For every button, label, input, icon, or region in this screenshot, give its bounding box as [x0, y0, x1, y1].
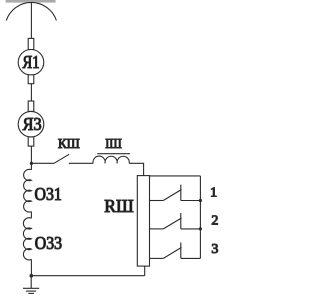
node: shunt branch junction	[30, 162, 33, 165]
svg-text:О33: О33	[35, 233, 63, 253]
inductive shunt ІШ core	[97, 153, 130, 155]
svg-text:Я1: Я1	[23, 52, 40, 72]
wire: inductor to resistor top	[129, 163, 143, 175]
svg-text:О31: О31	[35, 184, 62, 204]
resistor RШ body	[137, 176, 149, 267]
contact 1 left lead	[150, 200, 164, 202]
contact 1 right lead	[181, 200, 201, 202]
wire: right bus	[199, 176, 201, 259]
wire: bar to brush box of Я1	[30, 2, 32, 38]
wire: junction to switch КШ	[31, 162, 54, 164]
wire: top rail to right bus	[150, 175, 201, 177]
svg-text:1: 1	[210, 186, 217, 201]
ground stem	[30, 276, 32, 289]
field winding О33	[23, 218, 31, 260]
ground bar 3	[28, 292, 34, 294]
field winding О31	[24, 169, 32, 212]
brush box above Я1	[28, 38, 34, 49]
brush box below Я1	[28, 75, 34, 84]
wire: resistor bottom stub	[144, 266, 146, 276]
brush box below Я3	[28, 137, 34, 146]
switch КШ blade	[54, 154, 69, 163]
svg-text:3: 3	[211, 242, 218, 257]
wire: bottom return to resistor	[31, 275, 144, 277]
contact 2 left lead	[150, 228, 164, 230]
node contact 1	[199, 199, 202, 202]
contact 3 blade	[163, 247, 181, 258]
inductive shunt ІШ winding	[93, 156, 129, 163]
contact 3 right lead	[181, 257, 201, 259]
wire: between windings	[30, 212, 32, 219]
svg-text:ІШ: ІШ	[105, 137, 122, 152]
contact 3 left lead	[150, 257, 164, 259]
svg-text:RШ: RШ	[104, 196, 134, 216]
svg-text:Я3: Я3	[23, 114, 42, 134]
contact 2 right lead	[181, 228, 201, 230]
node: ground junction	[30, 274, 34, 278]
motor armature Я1	[18, 50, 44, 76]
svg-text:КШ: КШ	[58, 137, 80, 152]
contact 3 fixed stub	[180, 243, 182, 259]
contact 2 blade	[163, 218, 181, 229]
overhead contact line bar	[6, 0, 56, 3]
contact 1 fixed stub	[180, 185, 182, 201]
contact 2 fixed stub	[180, 213, 182, 229]
ground bar 2	[26, 290, 36, 292]
motor armature Я3	[18, 111, 44, 137]
node contact 2	[199, 227, 202, 230]
ground bar 1	[23, 287, 39, 289]
svg-text:2: 2	[211, 213, 218, 228]
wire: Я3 down to shunt junction	[30, 146, 32, 170]
contact 1 blade	[163, 190, 181, 201]
wire: Я1 to Я3	[30, 84, 32, 101]
pantograph bow arc	[6, 2, 56, 20]
wire: winding to ground junction	[30, 259, 32, 275]
brush box above Я3	[28, 101, 34, 111]
wire: switch КШ to inductor	[69, 162, 93, 164]
